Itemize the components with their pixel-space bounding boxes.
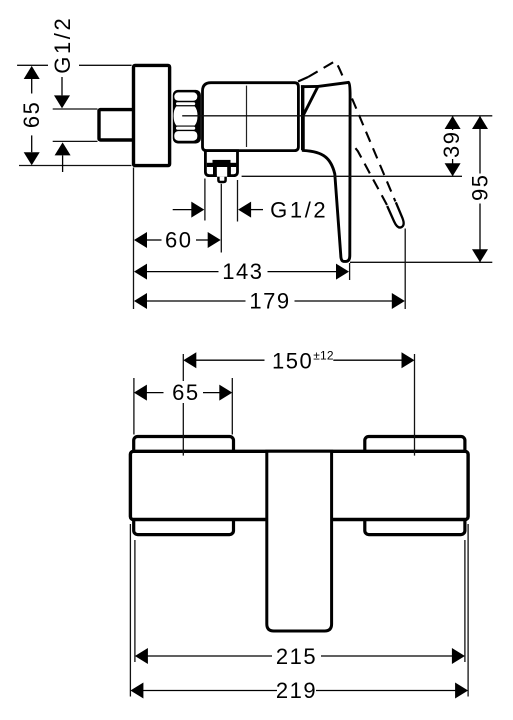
s-union flange left xyxy=(134,437,234,535)
handle lever (closed position, solid) xyxy=(303,82,350,261)
svg-text:179: 179 xyxy=(249,289,290,314)
centre body xyxy=(267,451,332,631)
solid tip of dashed handle xyxy=(387,202,405,229)
svg-text:60: 60 xyxy=(165,228,192,253)
dimension 179 xyxy=(134,293,405,309)
svg-text:95: 95 xyxy=(467,174,492,201)
dimension 65 (left, vertical) xyxy=(24,66,40,165)
dimension 60 xyxy=(134,232,221,248)
dimension 215 xyxy=(135,648,465,664)
cartridge cover strip xyxy=(301,85,304,150)
thin extension lines xyxy=(17,65,492,309)
handle top edge piece xyxy=(301,85,318,88)
outlet assembly below body xyxy=(205,151,237,182)
dimension 39 (right, vertical) xyxy=(445,116,461,176)
svg-text:65: 65 xyxy=(172,380,199,405)
s-union flange right xyxy=(365,437,465,535)
svg-text:G1/2: G1/2 xyxy=(50,16,75,74)
inlet connection (spout) xyxy=(99,110,135,140)
dimension 65 (bottom view) xyxy=(134,385,232,401)
svg-text:65: 65 xyxy=(19,101,44,128)
dimension 150 +/-12 xyxy=(183,352,414,368)
svg-text:143: 143 xyxy=(222,259,263,284)
mixer bar body xyxy=(130,451,468,519)
horizontal reference line through body (39/95 top) xyxy=(182,115,492,117)
dimension 143 xyxy=(134,264,349,280)
dashed handle (open position), rotated copy xyxy=(293,61,406,244)
union nut (black with white cutouts) xyxy=(173,90,201,144)
body centre line xyxy=(246,86,248,147)
dimension 219 xyxy=(130,683,468,699)
svg-text:215: 215 xyxy=(276,644,317,669)
svg-text:219: 219 xyxy=(276,678,317,703)
dimension G1/2 (outlet, horizontal, outside arrows) xyxy=(173,202,263,218)
svg-text:39: 39 xyxy=(439,131,464,158)
horizontal reference line (39 bottom) xyxy=(242,175,462,177)
dimension 95 (right, vertical) xyxy=(472,116,488,262)
mixer body xyxy=(203,83,299,151)
wall escutcheon xyxy=(134,65,170,165)
svg-text:G1/2: G1/2 xyxy=(270,197,328,222)
dimension G1/2 (left, vertical, outside arrows) xyxy=(54,77,71,172)
extension lines xyxy=(130,354,468,697)
